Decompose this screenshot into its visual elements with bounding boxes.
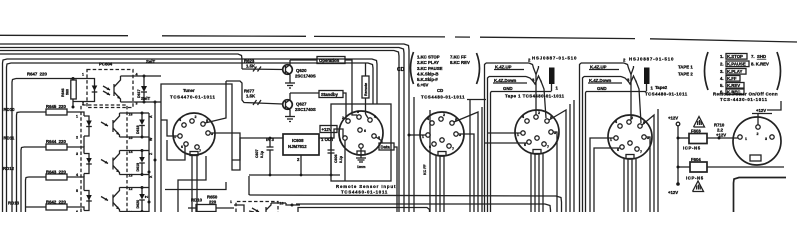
svg-text:D619: D619	[136, 163, 140, 172]
svg-text:NJM7812: NJM7812	[288, 144, 307, 149]
wire tape2 routing	[580, 63, 587, 212]
jack tip contact tape2	[624, 63, 634, 120]
svg-text:5.K.Skip-F: 5.K.Skip-F	[417, 77, 438, 82]
svg-text:Tuner: Tuner	[183, 88, 195, 93]
label TAPE 1 TAPE 2	[678, 65, 693, 77]
svg-text:2.: 2.	[720, 62, 724, 67]
svg-text:4: 4	[427, 117, 429, 121]
svg-text:GND: GND	[503, 86, 513, 91]
wire top bus line 3	[0, 48, 404, 213]
diode D619	[136, 149, 149, 176]
resistor R642	[26, 200, 85, 211]
svg-text:HSJ0887-01-510: HSJ0887-01-510	[629, 57, 674, 62]
svg-text:4: 4	[76, 173, 78, 177]
ground remote sensor	[356, 148, 366, 169]
svg-text:K.REV: K.REV	[727, 83, 740, 88]
svg-text:Operation: Operation	[319, 58, 340, 63]
connector CD	[420, 88, 465, 156]
wire IC in from tuner box	[232, 108, 270, 170]
connector Remote Power	[733, 117, 781, 165]
wire bottom bus 2	[296, 204, 551, 212]
svg-text:4: 4	[522, 115, 524, 119]
svg-text:3.KC PAUSE: 3.KC PAUSE	[417, 66, 443, 71]
wire tape2 pin1 route	[590, 138, 614, 212]
svg-text:7: 7	[452, 147, 454, 151]
fuse F603	[678, 129, 738, 151]
svg-text:5: 5	[76, 189, 78, 193]
opto channel 2	[76, 150, 142, 178]
svg-text:Remote Sensor Input: Remote Sensor Input	[336, 184, 396, 189]
svg-text:K.FF: K.FF	[727, 76, 737, 81]
svg-text:0.1µ: 0.1µ	[339, 156, 343, 163]
svg-text:K.PAUSE: K.PAUSE	[727, 62, 746, 67]
svg-text:6: 6	[364, 129, 366, 133]
fuse F604	[678, 157, 784, 181]
diode D618	[136, 112, 149, 139]
svg-text:D618: D618	[136, 125, 140, 134]
svg-text:RD10: RD10	[4, 107, 16, 112]
svg-text:4.: 4.	[720, 76, 724, 81]
svg-text:Tape 1 TCS4480-01-1011: Tape 1 TCS4480-01-1011	[505, 94, 565, 99]
svg-text:SelT: SelT	[141, 96, 150, 101]
svg-text:3: 3	[357, 110, 359, 114]
svg-text:1: 1	[76, 115, 78, 119]
svg-text:5.: 5.	[720, 83, 724, 88]
svg-text:6: 6	[429, 145, 431, 149]
opto channel 3	[76, 187, 142, 215]
wire bus to tuner	[149, 76, 232, 212]
svg-text:HSJ0887-01-510: HSJ0887-01-510	[532, 56, 577, 61]
label Operation	[290, 57, 352, 113]
svg-text:1.: 1.	[720, 54, 724, 59]
wire tape2 bottom verticals	[623, 159, 625, 212]
wire link ch1-ch2	[83, 136, 85, 147]
svg-text:7.KC FF: 7.KC FF	[450, 55, 467, 60]
resistor R643	[29, 170, 85, 191]
jack sleeve tape1	[549, 68, 559, 92]
svg-text:1: 1	[745, 137, 747, 141]
svg-text:8.KC REV: 8.KC REV	[450, 60, 470, 65]
wire row1 feed L	[12, 79, 16, 213]
wire frame line A	[3, 59, 378, 212]
svg-text:+12V: +12V	[322, 127, 332, 132]
wire tuner pin1	[161, 120, 178, 136]
label Remote	[362, 64, 369, 115]
svg-text:ICP-N5: ICP-N5	[683, 146, 701, 151]
svg-text:K.4Z.UP: K.4Z.UP	[495, 64, 512, 69]
svg-text:K.4Z.UP: K.4Z.UP	[590, 64, 607, 69]
svg-text:1: 1	[339, 138, 341, 142]
wire row2 feed L	[17, 112, 21, 212]
resistor R645	[20, 104, 84, 116]
label +12V top	[752, 101, 781, 125]
svg-text:K.4Z.Down: K.4Z.Down	[589, 78, 612, 83]
label Data	[376, 137, 397, 212]
svg-text:2: 2	[538, 111, 540, 115]
svg-text:2: 2	[757, 132, 759, 136]
label Standby	[290, 91, 346, 117]
svg-text:4: 4	[615, 120, 617, 124]
svg-text:TCS4480-01-1011: TCS4480-01-1011	[645, 92, 688, 97]
svg-text:+12V: +12V	[668, 116, 678, 121]
wire bottom box corner	[298, 208, 430, 213]
warning triangle 2	[693, 181, 704, 192]
wire corner below tuner	[165, 182, 226, 190]
svg-text:4: 4	[374, 115, 376, 119]
wire tuner pin3	[210, 133, 240, 160]
opto-coupler quad package	[81, 105, 127, 212]
wire cd frame	[413, 97, 415, 212]
svg-text:4: 4	[179, 118, 181, 122]
diode D620	[136, 186, 149, 213]
remote sensor box	[331, 104, 391, 181]
svg-text:8. K.REV: 8. K.REV	[751, 62, 769, 67]
warning triangle 1	[694, 117, 705, 128]
svg-text:2: 2	[195, 115, 197, 119]
jack sleeve tape2	[644, 68, 654, 92]
svg-text:1.5K: 1.5K	[246, 93, 256, 98]
jack ring contact tape1	[526, 76, 546, 118]
wire frame line B	[7, 63, 374, 212]
wire tape1 pin1 left	[488, 132, 522, 134]
opto channel 1	[76, 113, 142, 141]
wire cd left	[429, 110, 431, 212]
wire bottom bus 1	[249, 176, 562, 212]
wire tape2 pin6 route	[594, 148, 620, 212]
svg-text:+12V: +12V	[756, 108, 766, 113]
svg-text:SHD: SHD	[757, 54, 766, 59]
wire +12V rail	[668, 116, 680, 196]
net label K.4Z.UP tape1	[486, 58, 531, 70]
svg-text:C607: C607	[255, 149, 259, 158]
svg-text:1: 1	[230, 200, 232, 204]
svg-text:7.: 7.	[751, 54, 755, 59]
net label K.4Z.UP tape2	[581, 58, 626, 70]
svg-text:TAPE 1: TAPE 1	[678, 65, 693, 70]
wire cd bottom verticals	[435, 156, 437, 212]
svg-text:K.STOP: K.STOP	[727, 54, 743, 59]
svg-text:2: 2	[631, 116, 633, 120]
svg-text:6.+5V: 6.+5V	[417, 83, 428, 88]
svg-text:K.PLAY: K.PLAY	[727, 69, 742, 74]
svg-text:PC604: PC604	[99, 62, 113, 67]
wire top bus line 5	[0, 54, 242, 69]
wire link ch2-ch3	[83, 174, 85, 178]
wire row3 feed L	[21, 147, 24, 212]
svg-text:TCS4480-01-1011: TCS4480-01-1011	[421, 95, 465, 100]
svg-text:560: 560	[65, 89, 69, 95]
connector Tape 2	[608, 85, 688, 159]
svg-text:1mm: 1mm	[357, 165, 365, 169]
wire tape1 bottom verticals	[530, 154, 532, 212]
resistor R647	[16, 71, 86, 80]
svg-text:220: 220	[209, 200, 217, 205]
svg-text:IC608: IC608	[292, 138, 304, 143]
svg-text:CD: CD	[397, 67, 405, 73]
transistor Q627	[283, 93, 316, 114]
wire operation to pin3	[352, 112, 357, 115]
net label GND tape1	[491, 86, 552, 92]
capacitor C606	[328, 137, 344, 175]
list Tape functions	[705, 52, 781, 95]
connector Tape 1	[505, 94, 565, 154]
resistor R650	[188, 195, 234, 212]
svg-text:K.4Z.Down: K.4Z.Down	[494, 78, 517, 83]
diode D617	[137, 75, 147, 104]
wire top bus line 1	[0, 35, 797, 42]
svg-text:RD10: RD10	[191, 198, 203, 203]
wire tape1 right verticals	[553, 132, 557, 212]
wire top bus line 2	[0, 44, 409, 212]
wire tuner pin6	[167, 140, 185, 160]
svg-text:GND: GND	[597, 86, 607, 91]
svg-text:R645 220: R645 220	[46, 104, 66, 109]
resistor R646	[61, 79, 76, 109]
wire tape1 pin6 left	[485, 142, 528, 144]
svg-text:4.K.Skip-B: 4.K.Skip-B	[417, 71, 439, 76]
svg-text:CD: CD	[437, 88, 443, 93]
net label K.4Z.Down tape2	[584, 77, 630, 84]
svg-text:TCS4460-01-1011: TCS4460-01-1011	[341, 190, 388, 195]
svg-text:2.KC PLAY: 2.KC PLAY	[417, 60, 439, 65]
svg-text:3.: 3.	[720, 69, 724, 74]
svg-text:2: 2	[76, 136, 78, 140]
svg-text:1.KC STOP: 1.KC STOP	[417, 55, 440, 60]
svg-text:7: 7	[199, 149, 201, 153]
svg-text:C606: C606	[334, 154, 338, 163]
svg-text:KC FF: KC FF	[423, 164, 427, 175]
node SelT	[137, 59, 155, 102]
svg-text:Data: Data	[381, 145, 391, 150]
wire tape2 right verticals	[646, 137, 650, 212]
svg-text:D620: D620	[136, 200, 140, 209]
svg-text:7: 7	[547, 145, 549, 149]
svg-text:SelT: SelT	[146, 59, 155, 64]
svg-text:3: 3	[765, 137, 767, 141]
label Remote Power On/Off Conn	[713, 91, 778, 102]
svg-text:Remote: Remote	[364, 83, 368, 96]
opto-coupler PC604	[73, 62, 138, 108]
wire cd right verticals	[458, 134, 474, 212]
ground for Q620	[285, 79, 295, 88]
wire tuner bottom	[191, 156, 193, 213]
wire remote to pin4	[366, 114, 369, 118]
resistor R623	[242, 59, 283, 72]
svg-text:R644 220: R644 220	[46, 139, 66, 144]
svg-text:Tape2: Tape2	[655, 85, 668, 90]
net label GND tape2	[586, 86, 647, 92]
svg-text:6: 6	[76, 210, 78, 212]
svg-text:RD13: RD13	[8, 201, 20, 206]
net label K.4Z.Down tape1	[489, 77, 535, 84]
ground for Q627	[285, 114, 295, 122]
svg-text:2SC1740S: 2SC1740S	[295, 73, 316, 78]
jack ring contact tape2	[621, 76, 641, 123]
junction dots bus	[148, 171, 151, 174]
svg-text:RD11: RD11	[4, 136, 15, 141]
svg-text:TCS-4430-01-1011: TCS-4430-01-1011	[720, 97, 768, 102]
label +12V supply	[320, 126, 343, 136]
svg-text:Remote Power On/Off Conn: Remote Power On/Off Conn	[713, 91, 778, 96]
capacitor C607	[255, 137, 274, 175]
svg-text:0.1µ: 0.1µ	[260, 151, 264, 158]
wire tuner bottom L	[178, 156, 206, 212]
svg-text:7: 7	[640, 150, 642, 154]
svg-text:ICP-N5: ICP-N5	[686, 176, 704, 181]
svg-text:Q627: Q627	[296, 102, 307, 107]
connector Remote Sensor Input	[336, 110, 396, 195]
resistor R677	[226, 81, 283, 105]
wire pin1 down	[344, 140, 346, 181]
svg-text:1.5K: 1.5K	[246, 63, 256, 68]
svg-text:+12V: +12V	[668, 190, 678, 195]
svg-text:RD12: RD12	[3, 166, 15, 171]
opto-coupler PC bottom	[234, 202, 300, 213]
svg-text:2: 2	[342, 116, 344, 120]
wire ground bus IC	[249, 174, 340, 177]
svg-text:+12V: +12V	[716, 133, 726, 138]
wire section box right	[734, 178, 787, 213]
resistor R710	[714, 123, 726, 138]
svg-text:Q620: Q620	[296, 68, 307, 73]
resistor R644	[24, 139, 84, 154]
wire top bus line 4	[0, 51, 399, 213]
svg-text:TAPE 2: TAPE 2	[678, 72, 693, 77]
wire tape1 routing	[485, 63, 492, 212]
svg-text:TCS4470-01-1011: TCS4470-01-1011	[170, 95, 216, 100]
wire row4 feed L	[26, 177, 29, 212]
svg-text:3: 3	[76, 152, 78, 156]
svg-text:1: 1	[82, 73, 84, 77]
svg-text:Standby: Standby	[321, 92, 339, 97]
svg-text:2SC1740S: 2SC1740S	[295, 107, 316, 112]
voltage regulator IC608	[266, 129, 337, 175]
svg-text:2: 2	[443, 113, 445, 117]
wire cd pin1 left	[409, 134, 426, 136]
wire +12V to pin1	[342, 135, 344, 138]
transistor Q620	[283, 60, 316, 79]
wire standby to pin2	[346, 116, 348, 119]
tuner connector U-TUNER	[170, 88, 216, 156]
wire tuner pin5	[205, 81, 226, 123]
svg-text:R647 220: R647 220	[27, 71, 47, 76]
list CD functions	[397, 52, 480, 88]
jack tip contact tape1	[529, 63, 539, 115]
svg-text:6: 6	[181, 145, 183, 149]
